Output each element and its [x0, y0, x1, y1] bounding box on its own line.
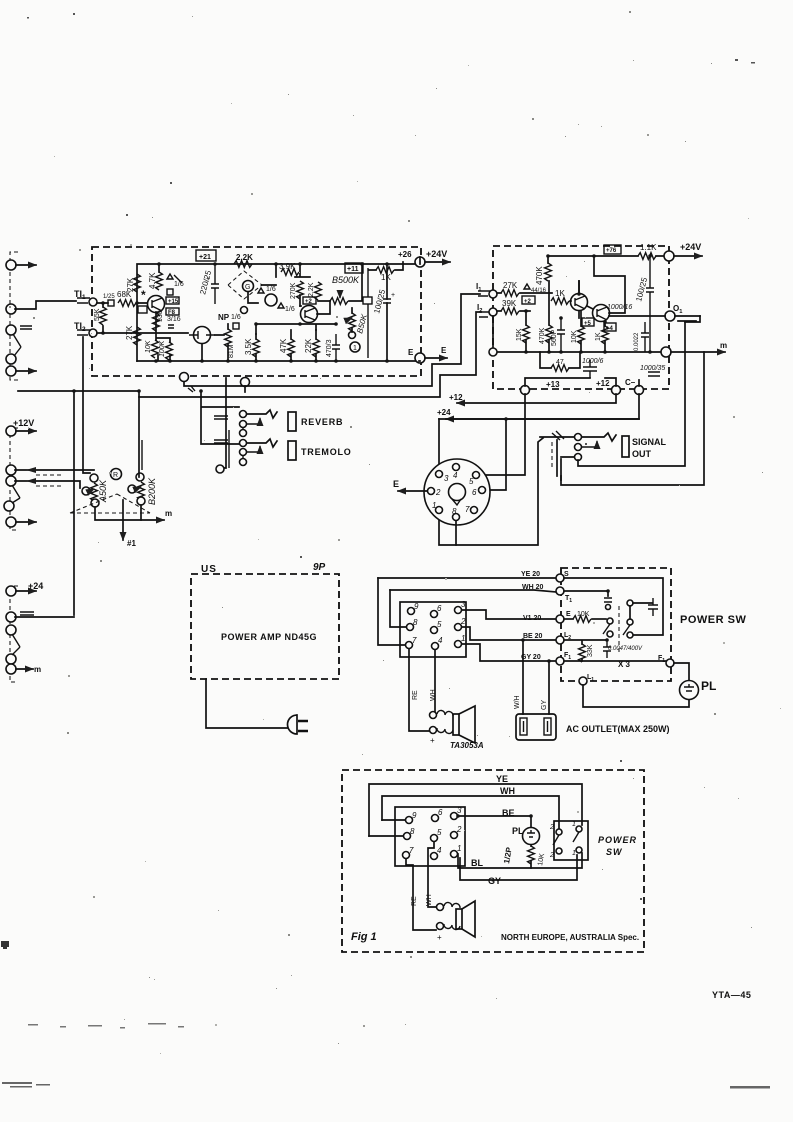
svg-text:81M: 81M: [228, 344, 235, 358]
svg-text:NP: NP: [218, 313, 230, 322]
svg-text:5: 5: [437, 620, 442, 629]
svg-text:YE: YE: [496, 774, 508, 784]
svg-text:SW: SW: [606, 847, 623, 857]
svg-text:*: *: [141, 288, 146, 302]
svg-text:+: +: [206, 276, 210, 283]
svg-text:10K: 10K: [577, 611, 590, 618]
svg-text:1: 1: [461, 634, 465, 643]
svg-text:1/6: 1/6: [285, 306, 295, 313]
svg-text:3: 3: [461, 600, 466, 609]
svg-text:POWER SW: POWER SW: [680, 614, 746, 626]
svg-text:G: G: [245, 284, 250, 291]
svg-text:B200K: B200K: [147, 477, 157, 505]
svg-text:YTA—45: YTA—45: [712, 990, 751, 1000]
svg-text:R: R: [113, 472, 118, 479]
svg-text:m: m: [165, 509, 172, 518]
svg-text:+26: +26: [398, 250, 412, 259]
svg-text:1: 1: [432, 501, 436, 510]
svg-text:RE: RE: [411, 896, 418, 906]
svg-text:55K: 55K: [94, 308, 101, 321]
svg-text:NORTH EUROPE, AUSTRALIA Spec.: NORTH EUROPE, AUSTRALIA Spec.: [501, 933, 639, 942]
svg-text:27K: 27K: [125, 325, 134, 340]
svg-text:+12V: +12V: [13, 418, 34, 428]
svg-text:+24V: +24V: [680, 242, 701, 252]
svg-text:E: E: [408, 348, 414, 357]
svg-text:6: 6: [437, 604, 442, 613]
svg-text:+2: +2: [305, 299, 313, 305]
svg-text:9: 9: [414, 602, 419, 611]
svg-text:39K: 39K: [502, 299, 517, 308]
svg-text:470K: 470K: [539, 327, 546, 344]
svg-text:+5: +5: [584, 321, 592, 327]
svg-text:+76: +76: [606, 248, 617, 254]
svg-text:1/25: 1/25: [103, 294, 115, 300]
svg-text:8: 8: [410, 827, 415, 836]
svg-text:RE: RE: [412, 690, 419, 700]
svg-text:2.2K: 2.2K: [236, 253, 253, 262]
svg-text:1/6: 1/6: [231, 314, 241, 321]
svg-text:+24V: +24V: [426, 249, 447, 259]
svg-text:GY: GY: [541, 700, 548, 710]
svg-text:1.1K: 1.1K: [640, 243, 657, 252]
svg-text:REVERB: REVERB: [301, 417, 343, 427]
svg-text:1000/6: 1000/6: [582, 358, 604, 365]
svg-text:E: E: [393, 479, 399, 489]
svg-text:B500K: B500K: [332, 275, 360, 285]
svg-text:1: 1: [572, 821, 576, 828]
svg-text:22K: 22K: [304, 338, 313, 353]
svg-text:0.0047/400V: 0.0047/400V: [608, 646, 643, 652]
svg-text:C–: C–: [625, 378, 636, 387]
svg-text:Fig 1: Fig 1: [351, 931, 377, 943]
svg-text:+: +: [391, 292, 395, 299]
svg-text:2.2K: 2.2K: [308, 282, 315, 297]
svg-text:4.7K: 4.7K: [148, 272, 157, 289]
svg-text:3/16: 3/16: [167, 316, 181, 323]
svg-text:+12: +12: [596, 379, 610, 388]
svg-text:5: 5: [469, 477, 474, 486]
svg-text:+11: +11: [347, 266, 359, 273]
svg-text:BL: BL: [471, 858, 483, 868]
svg-text:WH: WH: [500, 786, 515, 796]
svg-text:+: +: [437, 933, 442, 942]
svg-text:GY: GY: [488, 876, 501, 886]
svg-text:0.0022: 0.0022: [634, 332, 640, 351]
svg-text:+13: +13: [546, 380, 560, 389]
svg-text:7: 7: [412, 636, 417, 645]
svg-text:+24: +24: [437, 408, 451, 417]
svg-text:PL: PL: [512, 826, 524, 836]
svg-text:OUT: OUT: [632, 449, 652, 459]
svg-text:1/6: 1/6: [174, 281, 184, 288]
svg-text:470K: 470K: [535, 266, 544, 285]
svg-text:4: 4: [453, 471, 458, 480]
svg-text:YE 20: YE 20: [521, 571, 540, 578]
svg-text:BE 20: BE 20: [523, 633, 543, 640]
svg-text:1: 1: [457, 844, 461, 853]
svg-text:GY 20: GY 20: [521, 654, 541, 661]
svg-text:+2: +2: [524, 299, 532, 305]
svg-text:7: 7: [465, 505, 470, 514]
svg-text:8: 8: [452, 507, 457, 516]
svg-text:2: 2: [549, 824, 554, 831]
svg-text:POWER AMP ND45G: POWER AMP ND45G: [221, 632, 317, 642]
svg-text:3: 3: [444, 474, 449, 483]
svg-text:27K: 27K: [126, 277, 135, 292]
svg-text:100K: 100K: [159, 340, 166, 357]
svg-text:m: m: [34, 665, 41, 674]
svg-text:+21: +21: [199, 254, 211, 261]
svg-text:8: 8: [413, 618, 418, 627]
svg-text:TA3053A: TA3053A: [450, 741, 484, 750]
svg-text:+12: +12: [449, 393, 463, 402]
svg-text:1/6: 1/6: [266, 286, 276, 293]
svg-text:W/H: W/H: [514, 695, 521, 709]
svg-text:SIGNAL: SIGNAL: [632, 437, 667, 447]
svg-text:+15: +15: [168, 299, 179, 305]
svg-text:33K: 33K: [587, 644, 594, 657]
svg-text:E: E: [441, 346, 447, 355]
svg-text:7: 7: [409, 846, 414, 855]
svg-text:4: 4: [438, 636, 443, 645]
svg-text:1: 1: [353, 345, 357, 352]
svg-text:4: 4: [437, 846, 442, 855]
svg-text:10K: 10K: [145, 340, 152, 353]
svg-text:E: E: [566, 611, 571, 618]
svg-text:6: 6: [438, 808, 443, 817]
svg-text:1: 1: [572, 850, 576, 857]
svg-text:WH: WH: [426, 894, 433, 906]
svg-text:47: 47: [556, 359, 564, 366]
svg-text:9P: 9P: [313, 562, 326, 573]
svg-text:+: +: [430, 736, 435, 745]
svg-text:15K: 15K: [516, 328, 523, 341]
svg-text:2: 2: [456, 825, 462, 834]
svg-text:6: 6: [472, 488, 477, 497]
svg-text:#1: #1: [127, 539, 136, 548]
svg-text:1000/16: 1000/16: [607, 304, 632, 311]
svg-text:1000/35: 1000/35: [640, 365, 665, 372]
svg-text:2: 2: [549, 852, 554, 859]
svg-text:+24: +24: [28, 581, 43, 591]
svg-text:3.5K: 3.5K: [244, 338, 253, 355]
svg-text:5: 5: [437, 828, 442, 837]
svg-text:WH 20: WH 20: [522, 584, 544, 591]
svg-text:9: 9: [412, 811, 417, 820]
svg-text:1K: 1K: [595, 332, 602, 341]
svg-text:27K: 27K: [503, 281, 518, 290]
svg-text:560P: 560P: [551, 329, 558, 346]
svg-text:2: 2: [460, 617, 466, 626]
svg-text:S: S: [564, 571, 569, 578]
svg-text:3: 3: [457, 806, 462, 815]
svg-text:10K: 10K: [571, 330, 578, 343]
svg-text:m: m: [720, 341, 727, 350]
svg-text:POWER: POWER: [598, 835, 637, 845]
svg-text:PL: PL: [701, 679, 716, 693]
svg-text:US: US: [201, 564, 217, 575]
svg-text:44/16: 44/16: [531, 288, 547, 294]
svg-text:47K: 47K: [279, 338, 288, 353]
svg-text:WH: WH: [430, 689, 437, 701]
svg-text:TREMOLO: TREMOLO: [301, 447, 352, 457]
svg-text:2: 2: [435, 488, 441, 497]
svg-text:AC OUTLET(MAX 250W): AC OUTLET(MAX 250W): [566, 724, 670, 734]
svg-text:V1 20: V1 20: [523, 615, 541, 622]
svg-text:470/3: 470/3: [326, 339, 333, 357]
